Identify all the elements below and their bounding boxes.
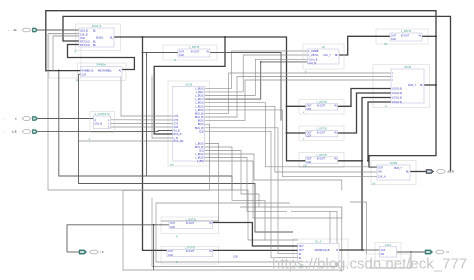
svg-text:IN OUT: IN OUT xyxy=(317,158,326,161)
svg-text:L_CBT1s: L_CBT1s xyxy=(308,54,319,57)
svg-text:RST(1:0): RST(1:0) xyxy=(80,44,90,47)
svg-text:L_RST/B: L_RST/B xyxy=(186,218,196,221)
svg-text:d2_R: d2_R xyxy=(448,170,454,174)
svg-text:BUS_R(1:: BUS_R(1: xyxy=(174,140,185,143)
svg-text:RA: RA xyxy=(384,43,388,46)
svg-text:BUS_?: BUS_? xyxy=(408,84,416,87)
svg-text:inst: inst xyxy=(170,164,174,167)
svg-text:ckl: ckl xyxy=(322,46,326,49)
svg-text:LOG(1:0): LOG(1:0) xyxy=(392,101,402,104)
svg-text:L_BUS(: L_BUS( xyxy=(195,105,204,108)
svg-text:L_RST/B: L_RST/B xyxy=(316,154,326,157)
svg-text:CLR: CLR xyxy=(179,54,184,57)
svg-text:RL_S: RL_S xyxy=(315,240,322,243)
svg-text:ON: ON xyxy=(378,171,382,174)
svg-text:BUS_B(: BUS_B( xyxy=(195,127,204,130)
svg-text:U5/U8: U5/U8 xyxy=(404,66,412,69)
svg-text:LOG(1:0): LOG(1:0) xyxy=(392,92,402,95)
svg-text:BUS(1:: BUS(1: xyxy=(96,37,104,40)
svg-text:OUT: OUT xyxy=(299,249,305,252)
svg-text:CLR: CLR xyxy=(307,108,312,111)
svg-text:L_RST/B: L_RST/B xyxy=(189,46,199,49)
svg-text:CLR: CLR xyxy=(168,254,173,257)
svg-text:U1/U8: U1/U8 xyxy=(185,84,193,87)
svg-text:IN: IN xyxy=(209,222,212,225)
svg-text:https://blog.csdn.net/eck_777: https://blog.csdn.net/eck_777 xyxy=(272,256,467,273)
svg-text:FDLR_B: FDLR_B xyxy=(92,25,102,28)
svg-text:IN OUT: IN OUT xyxy=(186,250,195,253)
svg-text:R: R xyxy=(76,80,78,83)
svg-text:ADDR(3:0)=B: ADDR(3:0)=B xyxy=(315,249,330,252)
svg-text:R: R xyxy=(176,236,178,239)
svg-text:CLR: CLR xyxy=(307,161,312,164)
svg-text:CLK_A: CLK_A xyxy=(378,175,386,178)
svg-text:OUT: OUT xyxy=(179,50,185,53)
svg-text:L_RST/B: L_RST/B xyxy=(316,101,326,104)
svg-text:CLR: CLR xyxy=(170,226,175,229)
svg-text:BUS(: BUS( xyxy=(198,120,204,123)
svg-text:BUS_B(: BUS_B( xyxy=(195,116,204,119)
svg-text:CLK_B: CLK_B xyxy=(95,123,103,126)
svg-text:BUS_?: BUS_? xyxy=(394,167,402,170)
svg-text:d_B: d_B xyxy=(12,130,17,134)
svg-text:L_BUS(: L_BUS( xyxy=(195,87,204,90)
svg-text:IN OUT: IN OUT xyxy=(317,105,326,108)
svg-text:OUT: OUT xyxy=(391,34,397,37)
svg-text:IN: IN xyxy=(207,50,210,53)
svg-text:IN: IN xyxy=(334,158,337,161)
svg-text:RAMB(1:0): RAMB(1:0) xyxy=(82,69,94,72)
svg-text:IN OUT: IN OUT xyxy=(317,131,326,134)
svg-text:L_BUS(: L_BUS( xyxy=(195,95,204,98)
svg-text:CTS: CTS xyxy=(174,115,179,118)
svg-text:OUT: OUT xyxy=(378,167,384,170)
svg-text:IN OUT: IN OUT xyxy=(191,50,200,53)
svg-text:LOG(1:0): LOG(1:0) xyxy=(392,88,402,91)
svg-text:CLR: CLR xyxy=(391,38,396,41)
svg-text:A(: A( xyxy=(119,69,122,72)
svg-text:IN: IN xyxy=(334,105,337,108)
svg-text:BUS_R: BUS_R xyxy=(174,133,182,136)
svg-text:FD/RE: FD/RE xyxy=(390,162,398,165)
svg-text:IN: IN xyxy=(334,131,337,134)
svg-text:CLR: CLR xyxy=(380,249,385,252)
svg-text:L_RST/B: L_RST/B xyxy=(401,30,411,33)
svg-text:WE RAMB(1:: WE RAMB(1: xyxy=(98,69,113,72)
svg-text:RAMB/a: RAMB/a xyxy=(97,64,107,67)
svg-text:CLB: CLB xyxy=(199,130,204,133)
svg-text:OUT: OUT xyxy=(299,245,305,248)
svg-text:IN OUT: IN OUT xyxy=(401,34,410,37)
svg-text:L_B(1:0: L_B(1:0 xyxy=(195,98,204,101)
svg-text:cnt: cnt xyxy=(372,183,376,186)
svg-text:R: R xyxy=(174,59,176,62)
svg-text:IN: IN xyxy=(419,34,422,37)
svg-text:L_RST/B: L_RST/B xyxy=(185,247,195,250)
svg-text:IN OUT: IN OUT xyxy=(186,222,195,225)
svg-text:CLR: CLR xyxy=(82,73,87,76)
svg-text:L06: L06 xyxy=(303,165,308,168)
svg-text:L_CMMB: L_CMMB xyxy=(308,50,318,53)
svg-text:CLK_?: CLK_? xyxy=(323,54,331,57)
svg-text:CLR: CLR xyxy=(233,256,238,259)
svg-text:BUS_B(: BUS_B( xyxy=(195,112,204,115)
svg-text:CLKn_B: CLKn_B xyxy=(308,58,317,61)
svg-text:R: R xyxy=(176,261,178,264)
svg-text:CLR: CLR xyxy=(307,135,312,138)
svg-text:BUS(: BUS( xyxy=(198,123,204,126)
svg-text:IN: IN xyxy=(209,250,212,253)
svg-text:L/LTA: L/LTA xyxy=(385,244,392,247)
svg-text:OUT: OUT xyxy=(168,250,174,253)
svg-text:OUT: OUT xyxy=(170,222,176,225)
svg-text:R: R xyxy=(75,51,77,54)
svg-text:LD(1:0): LD(1:0) xyxy=(80,30,88,33)
svg-text:L_RST/B: L_RST/B xyxy=(316,128,326,131)
svg-text:CLK_B: CLK_B xyxy=(308,62,316,65)
svg-text:LOG(1:0): LOG(1:0) xyxy=(392,97,402,100)
svg-text:A_CLKB/SYS: A_CLKB/SYS xyxy=(94,113,110,116)
svg-text:L_BF(1: L_BF(1 xyxy=(196,91,205,94)
svg-text:t.#: t.# xyxy=(101,250,104,254)
svg-text:L_BS(: L_BS( xyxy=(197,160,204,163)
svg-text:L_BUS(: L_BUS( xyxy=(195,102,204,105)
